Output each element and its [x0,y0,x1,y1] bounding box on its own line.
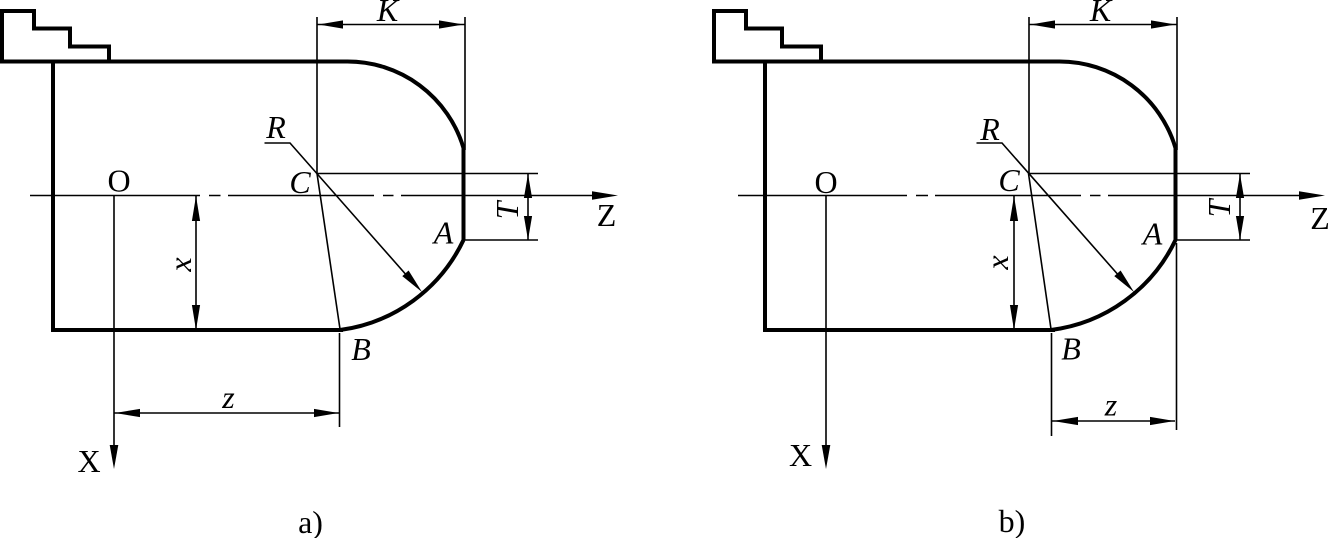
X axis line b [825,196,827,447]
X axis arrowhead a [110,445,119,469]
T dimension line b [1239,174,1241,241]
K dim arrow left b [1031,20,1056,28]
K dim arrow right a [439,20,464,28]
svg-text:O: O [107,163,130,199]
extension line below A b [1176,243,1178,430]
workpiece bottom edge b [763,328,1055,332]
svg-text:x: x [979,255,1015,270]
z dim arrow left b [1053,417,1078,425]
T extension lines a [317,174,538,241]
z dim arrow left a [115,409,140,417]
T dim arrow up a [524,174,532,198]
radius line C to B a [317,174,340,330]
workpiece top edge a [0,60,347,64]
X axis line a [113,196,115,447]
svg-text:B: B [1061,331,1081,367]
R leader line b [977,143,1129,286]
z dimension line a [114,412,339,414]
chuck (stepped jaw) b [714,11,821,62]
extension line below B a [339,333,341,427]
K dimension line a [317,24,465,26]
svg-text:C: C [289,164,311,200]
z dim arrow right b [1150,417,1175,425]
extension line below B b [1051,333,1053,436]
svg-text:z: z [221,379,235,415]
R leader arrowhead a [402,271,422,293]
T extension lines b [1029,174,1250,241]
svg-text:B: B [351,331,371,367]
T dim arrow down b [1236,216,1244,240]
svg-text:z: z [1104,387,1118,423]
z dimension line b [1052,420,1175,422]
x dim arrow up b [1010,196,1018,221]
T dim arrow up b [1236,174,1244,198]
Z axis arrowhead a [592,191,618,199]
workpiece left edge a [51,60,55,332]
svg-text:K: K [376,0,400,28]
svg-text:A: A [1141,216,1163,252]
chuck (stepped jaw) a [2,11,109,62]
z dim arrow right a [314,409,339,417]
svg-text:R: R [265,109,286,145]
svg-text:T: T [1201,197,1237,217]
K dim arrow right b [1151,20,1176,28]
svg-text:X: X [789,437,812,473]
K dim arrow left a [319,20,344,28]
K dimension line b [1029,24,1177,26]
workpiece left edge b [763,60,767,332]
centerline Z axis b [738,195,1312,197]
K extension lines b [1029,17,1177,174]
workpiece corner-round arc A-B b [1051,240,1176,330]
svg-text:x: x [162,257,198,272]
svg-text:a): a) [298,504,323,538]
x dimension line a [195,196,197,330]
svg-text:R: R [979,111,1000,147]
x dimension line b [1013,196,1015,330]
centerline Z axis a [30,195,605,197]
workpiece bottom edge a [51,328,343,332]
X axis arrowhead b [822,445,831,469]
x dim arrow down b [1010,305,1018,330]
R leader arrowhead b [1114,271,1134,293]
svg-text:Z: Z [1310,200,1330,236]
svg-text:X: X [77,443,100,479]
svg-text:O: O [814,164,837,200]
x dim arrow up a [192,196,200,221]
T dimension line a [527,174,529,241]
svg-text:A: A [432,215,454,251]
svg-text:Z: Z [597,197,617,233]
workpiece top edge b [712,60,1059,64]
K extension lines a [317,17,465,174]
workpiece right edge b [1174,146,1178,240]
workpiece right edge a [462,146,466,240]
radius line C to B b [1029,174,1052,330]
svg-text:T: T [489,199,525,219]
workpiece corner-round arc A-B a [340,240,464,330]
svg-text:b): b) [999,503,1026,538]
T dim arrow down a [524,216,532,240]
svg-text:C: C [998,162,1020,198]
R leader line a [265,143,417,286]
svg-text:K: K [1089,0,1113,28]
x dim arrow down a [192,305,200,330]
Z axis arrowhead b [1299,191,1325,199]
workpiece top-right arc a [347,61,464,148]
workpiece top-right arc b [1059,61,1176,148]
